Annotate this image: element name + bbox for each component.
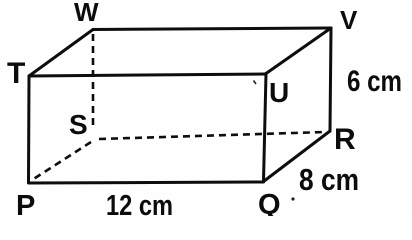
svg-text:V: V (340, 5, 358, 35)
wire edge T-U (top front) (29, 74, 266, 76)
svg-text:Q: Q (258, 189, 281, 216)
svg-text:P: P (16, 190, 35, 216)
wire hidden edge W-S (dashed) (92, 34, 95, 130)
svg-text:T: T (7, 57, 25, 90)
svg-text:S: S (69, 109, 88, 140)
wire edge U-V (266, 28, 331, 74)
wire edge W-V (top back) (93, 28, 331, 30)
wire edge T-P (left vertical) (27, 76, 31, 183)
wire edge P-Q (bottom front) (29, 182, 264, 183)
wire edge Q-R (264, 131, 331, 182)
svg-text:W: W (74, 0, 99, 27)
svg-text:U: U (269, 77, 289, 108)
svg-text:6 cm: 6 cm (347, 65, 402, 98)
svg-text:R: R (334, 123, 356, 156)
svg-text:8 cm: 8 cm (299, 162, 359, 197)
wire hidden edge S-R (dashed) (99, 132, 326, 139)
stray mark dot near Q (291, 197, 294, 200)
wire hidden edge S-P (dashed) (32, 142, 91, 180)
stray tick near U (254, 81, 257, 85)
svg-text:12 cm: 12 cm (106, 190, 173, 216)
wire edge T-W (29, 30, 93, 77)
wire edge V-R (right back vertical) (330, 28, 331, 131)
wire edge U-Q (right front vertical) (264, 74, 267, 182)
